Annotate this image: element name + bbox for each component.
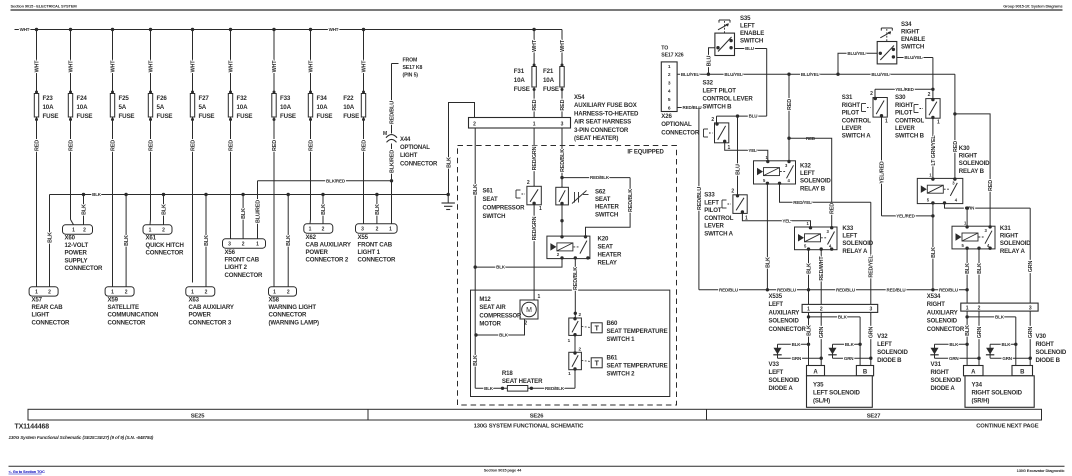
svg-text:10A: 10A: [237, 104, 249, 111]
svg-text:CAB AUXILIARY: CAB AUXILIARY: [189, 304, 234, 311]
svg-text:CONNECTOR: CONNECTOR: [661, 129, 700, 136]
svg-text:S33: S33: [704, 192, 715, 199]
svg-text:GRN: GRN: [1028, 326, 1034, 338]
svg-text:2: 2: [870, 91, 873, 97]
svg-text:YEL: YEL: [748, 148, 757, 153]
svg-text:FUSE: FUSE: [77, 113, 93, 120]
svg-text:BLU/RED: BLU/RED: [255, 200, 261, 223]
svg-text:BLK: BLK: [161, 204, 167, 215]
svg-text:CONTROL: CONTROL: [704, 215, 734, 222]
svg-text:3: 3: [361, 227, 364, 233]
svg-text:DIODE A: DIODE A: [769, 385, 794, 392]
svg-text:BLK: BLK: [806, 263, 812, 274]
svg-text:SWITCH: SWITCH: [740, 38, 763, 45]
svg-text:BLU/YEL: BLU/YEL: [847, 51, 866, 56]
svg-text:RED: RED: [560, 99, 566, 110]
svg-text:1: 1: [35, 290, 38, 296]
svg-text:REAR CAB: REAR CAB: [32, 304, 64, 311]
svg-text:RED/YEL: RED/YEL: [869, 254, 875, 277]
svg-text:S34: S34: [901, 21, 912, 28]
svg-text:S31: S31: [842, 94, 853, 101]
svg-text:SE17 K8: SE17 K8: [403, 65, 423, 71]
svg-text:2: 2: [162, 228, 165, 234]
svg-text:K32: K32: [800, 163, 811, 170]
svg-text:LEFT: LEFT: [842, 233, 857, 240]
svg-text:RIGHT: RIGHT: [895, 102, 914, 109]
svg-text:2: 2: [205, 290, 208, 296]
svg-text:BLK: BLK: [995, 315, 1005, 320]
svg-text:X62: X62: [306, 234, 317, 241]
svg-text:ENABLE: ENABLE: [740, 30, 764, 37]
svg-text:X57: X57: [32, 297, 43, 304]
svg-text:SEAT: SEAT: [483, 197, 498, 203]
svg-text:CONNECTOR: CONNECTOR: [358, 257, 397, 264]
svg-text:HEATER: HEATER: [595, 204, 619, 211]
svg-text:WHT: WHT: [20, 27, 30, 32]
svg-text:SWITCH A: SWITCH A: [842, 133, 871, 140]
svg-text:OPTIONAL: OPTIONAL: [661, 121, 692, 128]
svg-text:(SL/H): (SL/H): [813, 398, 830, 405]
svg-text:CONNECTOR: CONNECTOR: [269, 312, 308, 319]
svg-text:X535: X535: [769, 294, 783, 300]
svg-text:1: 1: [728, 145, 731, 151]
svg-text:RELAY B: RELAY B: [959, 168, 985, 175]
svg-text:RED: RED: [148, 140, 154, 151]
svg-text:RED: RED: [787, 99, 793, 110]
svg-text:FUSE: FUSE: [343, 113, 359, 120]
svg-text:X58: X58: [269, 297, 280, 304]
svg-text:RED/BLU: RED/BLU: [887, 287, 906, 292]
svg-text:12-VOLT: 12-VOLT: [65, 242, 89, 249]
svg-text:SWITCH: SWITCH: [901, 44, 924, 51]
svg-text:BLK: BLK: [499, 333, 509, 338]
svg-text:RIGHT: RIGHT: [1036, 341, 1055, 348]
svg-text:X534: X534: [927, 294, 941, 300]
svg-text:HARNESS-TO-HEATED: HARNESS-TO-HEATED: [574, 110, 639, 117]
svg-text:RED/YEL: RED/YEL: [793, 200, 812, 205]
svg-text:F22: F22: [343, 95, 354, 102]
svg-text:V33: V33: [769, 361, 780, 368]
svg-text:BLK/RED: BLK/RED: [389, 150, 395, 173]
svg-text:RIGHT: RIGHT: [842, 102, 861, 109]
svg-text:1: 1: [72, 228, 75, 234]
svg-text:AUXILIARY: AUXILIARY: [927, 310, 958, 316]
svg-text:YEL/RED: YEL/RED: [879, 161, 885, 184]
svg-text:1: 1: [966, 305, 969, 311]
svg-text:SWITCH B: SWITCH B: [895, 133, 925, 140]
svg-text:2: 2: [322, 227, 325, 233]
svg-text:130G Excavator Diagnostic: 130G Excavator Diagnostic: [1017, 468, 1066, 473]
svg-text:BLK: BLK: [965, 263, 971, 274]
svg-text:GRN: GRN: [1028, 260, 1034, 272]
svg-text:FUSE: FUSE: [543, 86, 559, 93]
svg-text:(SR/H): (SR/H): [972, 398, 990, 405]
svg-text:SE17 X26: SE17 X26: [661, 53, 683, 59]
svg-text:Section 9015 - ELECTRICAL SYST: Section 9015 - ELECTRICAL SYSTEM: [11, 4, 78, 9]
svg-text:10A: 10A: [317, 104, 329, 111]
svg-text:RED: RED: [68, 140, 74, 151]
svg-text:RED/BLK: RED/BLK: [590, 175, 610, 180]
svg-text:BLK: BLK: [204, 235, 210, 246]
svg-text:PILOT: PILOT: [842, 110, 860, 117]
svg-text:RIGHT: RIGHT: [959, 153, 978, 160]
svg-text:10A: 10A: [43, 104, 55, 111]
svg-text:130G SYSTEM FUNCTIONAL SCHEMAT: 130G SYSTEM FUNCTIONAL SCHEMATIC: [474, 424, 585, 430]
svg-text:K33: K33: [842, 225, 853, 232]
svg-text:K30: K30: [959, 145, 970, 152]
svg-text:LEFT: LEFT: [800, 170, 815, 177]
svg-text:RIGHT: RIGHT: [901, 29, 920, 36]
svg-text:1: 1: [937, 120, 940, 126]
svg-text:2: 2: [731, 189, 734, 195]
svg-text:SWITCH A: SWITCH A: [704, 231, 733, 238]
svg-text:CONTINUE NEXT PAGE: CONTINUE NEXT PAGE: [976, 424, 1039, 430]
svg-text:RED/BLK: RED/BLK: [560, 149, 566, 172]
svg-text:RELAY B: RELAY B: [800, 185, 826, 192]
svg-text:F25: F25: [119, 95, 130, 102]
svg-text:LEFT PILOT: LEFT PILOT: [703, 88, 737, 95]
svg-text:LIGHT 2: LIGHT 2: [225, 264, 248, 271]
svg-text:LIGHT: LIGHT: [32, 312, 50, 319]
svg-text:WHT: WHT: [308, 60, 314, 73]
svg-text:1: 1: [539, 206, 542, 212]
svg-text:FUSE: FUSE: [119, 113, 135, 120]
svg-text:X59: X59: [108, 297, 119, 304]
svg-text:POWER: POWER: [65, 250, 88, 257]
svg-text:WHT: WHT: [148, 60, 154, 73]
svg-text:WHT: WHT: [272, 60, 278, 73]
svg-text:BLK: BLK: [496, 265, 506, 270]
svg-text:RED/BLU: RED/BLU: [939, 287, 958, 292]
svg-text:BLK: BLK: [321, 204, 327, 215]
svg-text:S61: S61: [483, 189, 494, 195]
svg-text:LEFT: LEFT: [877, 341, 892, 348]
svg-text:V30: V30: [1036, 333, 1047, 340]
svg-text:S35: S35: [740, 15, 751, 22]
svg-text:BLK: BLK: [838, 315, 848, 320]
svg-text:SEAT AIR: SEAT AIR: [479, 305, 506, 311]
svg-text:BLK: BLK: [473, 355, 479, 366]
svg-text:RIGHT: RIGHT: [1000, 233, 1019, 240]
svg-text:CONTROL: CONTROL: [842, 117, 872, 124]
svg-text:1: 1: [309, 227, 312, 233]
svg-text:FROM: FROM: [403, 58, 418, 64]
svg-text:S62: S62: [595, 189, 606, 196]
svg-text:X60: X60: [65, 235, 76, 242]
svg-text:F31: F31: [514, 68, 525, 75]
svg-text:1: 1: [885, 119, 888, 125]
svg-text:X56: X56: [225, 249, 236, 256]
svg-text:TO: TO: [661, 46, 668, 52]
svg-text:WHT: WHT: [110, 60, 116, 73]
svg-text:BLK: BLK: [845, 342, 855, 347]
svg-text:10A: 10A: [343, 104, 355, 111]
svg-text:B60: B60: [607, 320, 618, 327]
svg-text:GRN: GRN: [819, 326, 825, 338]
svg-text:OPTIONAL: OPTIONAL: [400, 145, 430, 151]
svg-text:RED/GRN: RED/GRN: [532, 216, 538, 240]
svg-text:FRONT CAB: FRONT CAB: [225, 257, 260, 264]
svg-text:CONNECTOR: CONNECTOR: [32, 319, 71, 326]
svg-text:BLK: BLK: [81, 204, 87, 215]
svg-text:DIODE B: DIODE B: [877, 357, 902, 364]
svg-text:RED/BLK: RED/BLK: [545, 386, 565, 391]
svg-text:S30: S30: [895, 94, 906, 101]
svg-text:PILOT: PILOT: [895, 110, 913, 117]
svg-text:SATELLITE: SATELLITE: [108, 304, 139, 311]
svg-text:LEVER: LEVER: [895, 125, 915, 132]
svg-text:LEFT: LEFT: [769, 369, 784, 376]
svg-text:LIGHT: LIGHT: [400, 153, 418, 159]
svg-text:WHT: WHT: [560, 39, 566, 52]
svg-text:X63: X63: [189, 297, 200, 304]
svg-text:SWITCH 2: SWITCH 2: [607, 370, 636, 377]
svg-text:BLK: BLK: [977, 263, 983, 274]
svg-text:3-PIN CONNECTOR: 3-PIN CONNECTOR: [574, 127, 629, 134]
svg-text:BLK: BLK: [484, 386, 494, 391]
svg-text:Section 9015 page 44: Section 9015 page 44: [484, 468, 522, 473]
svg-text:SE26: SE26: [530, 413, 545, 419]
svg-text:BLK: BLK: [92, 192, 102, 197]
svg-text:SOLENOID: SOLENOID: [927, 319, 958, 325]
svg-text:K20: K20: [598, 236, 609, 243]
svg-text:SOLENOID: SOLENOID: [959, 160, 990, 167]
svg-text:BLK: BLK: [446, 157, 452, 168]
svg-text:YEL/RED: YEL/RED: [895, 87, 914, 92]
svg-text:BLU/YEL: BLU/YEL: [801, 72, 820, 77]
svg-text:CONNECTOR: CONNECTOR: [927, 327, 965, 333]
svg-text:1: 1: [191, 290, 194, 296]
svg-text:RIGHT: RIGHT: [931, 369, 950, 376]
svg-text:X54: X54: [574, 94, 585, 101]
svg-text:POWER: POWER: [189, 312, 212, 319]
svg-text:10A: 10A: [514, 77, 526, 84]
svg-text:2: 2: [125, 290, 128, 296]
svg-text:CONNECTOR: CONNECTOR: [400, 161, 438, 167]
svg-text:RED: RED: [272, 140, 278, 151]
svg-text:MOTOR: MOTOR: [479, 322, 501, 328]
svg-text:CONNECTOR: CONNECTOR: [65, 265, 104, 272]
svg-text:2: 2: [820, 307, 823, 313]
svg-text:FUSE: FUSE: [237, 113, 253, 120]
svg-text:F21: F21: [543, 68, 554, 75]
svg-text:WHT: WHT: [68, 60, 74, 73]
svg-text:10A: 10A: [543, 77, 555, 84]
svg-text:R18: R18: [502, 370, 513, 377]
svg-text:LEFT: LEFT: [769, 302, 784, 308]
svg-text:2: 2: [48, 290, 51, 296]
svg-text:LEVER: LEVER: [704, 223, 724, 230]
svg-text:(SEAT HEATER): (SEAT HEATER): [574, 135, 618, 142]
svg-text:1: 1: [256, 242, 259, 248]
svg-text:RIGHT SOLENOID: RIGHT SOLENOID: [972, 390, 1023, 397]
svg-text:2: 2: [978, 305, 981, 311]
svg-text:YEL/RED: YEL/RED: [896, 214, 915, 219]
svg-text:BLU: BLU: [745, 46, 754, 51]
svg-text:RIGHT: RIGHT: [927, 302, 945, 308]
svg-text:FUSE: FUSE: [514, 86, 530, 93]
svg-text:RED: RED: [228, 140, 234, 151]
svg-text:RELAY A: RELAY A: [842, 248, 868, 255]
svg-text:<- Go to Section TOC: <- Go to Section TOC: [9, 469, 46, 474]
svg-text:RED/BLU: RED/BLU: [697, 187, 703, 210]
svg-text:FUSE: FUSE: [317, 113, 333, 120]
svg-text:3: 3: [228, 242, 231, 248]
svg-text:FUSE: FUSE: [199, 113, 215, 120]
svg-text:1: 1: [273, 290, 276, 296]
svg-text:Group 9015-10: System Diagrams: Group 9015-10: System Diagrams: [1003, 4, 1063, 9]
svg-text:SE27: SE27: [867, 413, 881, 419]
svg-text:FRONT CAB: FRONT CAB: [358, 241, 393, 248]
svg-text:BLU/YEL: BLU/YEL: [681, 72, 700, 77]
svg-text:SOLENOID: SOLENOID: [769, 319, 800, 325]
svg-text:BLK: BLK: [473, 184, 479, 195]
svg-text:BLK: BLK: [1002, 342, 1012, 347]
svg-text:RED: RED: [830, 203, 836, 214]
svg-text:F26: F26: [157, 95, 168, 102]
svg-text:S32: S32: [703, 80, 714, 87]
svg-text:3: 3: [561, 121, 564, 127]
svg-text:BLK: BLK: [792, 342, 802, 347]
svg-text:CONTROL LEVER: CONTROL LEVER: [703, 96, 754, 103]
svg-text:BLU/YEL: BLU/YEL: [724, 72, 743, 77]
svg-text:SWITCH: SWITCH: [483, 214, 506, 220]
svg-text:K31: K31: [1000, 225, 1011, 232]
svg-text:RED/BLU: RED/BLU: [836, 287, 855, 292]
svg-text:BLK: BLK: [124, 235, 130, 246]
svg-text:RELAY A: RELAY A: [1000, 248, 1026, 255]
svg-text:CONNECTOR: CONNECTOR: [108, 319, 147, 326]
svg-text:BLU: BLU: [735, 164, 741, 175]
svg-text:M12: M12: [479, 297, 491, 303]
svg-text:SUPPLY: SUPPLY: [65, 257, 88, 264]
svg-text:CONNECTOR: CONNECTOR: [225, 272, 264, 279]
svg-text:QUICK HITCH: QUICK HITCH: [146, 242, 184, 249]
svg-text:LEVER: LEVER: [842, 125, 862, 132]
svg-text:Y35: Y35: [813, 382, 824, 389]
svg-text:2: 2: [527, 180, 530, 186]
svg-text:X26: X26: [661, 113, 672, 120]
svg-text:1: 1: [533, 121, 536, 127]
svg-text:HEATER: HEATER: [598, 252, 622, 259]
svg-text:RED: RED: [190, 140, 196, 151]
svg-text:FUSE: FUSE: [43, 113, 59, 120]
svg-text:WHT: WHT: [329, 27, 339, 32]
svg-text:SOLENOID: SOLENOID: [769, 377, 800, 384]
svg-text:V32: V32: [877, 333, 888, 340]
svg-text:RED: RED: [308, 140, 314, 151]
svg-text:RED/BLK: RED/BLK: [628, 189, 634, 212]
svg-text:RED: RED: [34, 140, 40, 151]
svg-text:5A: 5A: [157, 104, 165, 111]
svg-text:DIODE B: DIODE B: [1036, 357, 1061, 364]
svg-text:DIODE A: DIODE A: [931, 385, 956, 392]
svg-text:1: 1: [149, 228, 152, 234]
svg-text:GRN: GRN: [1002, 356, 1012, 361]
svg-text:(PIN 5): (PIN 5): [403, 73, 419, 79]
svg-text:F24: F24: [77, 95, 88, 102]
svg-text:WHT: WHT: [190, 60, 196, 73]
svg-text:(WARNING LAMP): (WARNING LAMP): [269, 319, 319, 326]
svg-text:WHT: WHT: [361, 60, 367, 73]
svg-text:SOLENOID: SOLENOID: [842, 240, 873, 247]
svg-text:GRN: GRN: [949, 356, 959, 361]
svg-text:5A: 5A: [199, 104, 207, 111]
svg-text:10A: 10A: [280, 104, 292, 111]
svg-text:AIR SEAT HARNESS: AIR SEAT HARNESS: [574, 119, 631, 126]
svg-text:BLK: BLK: [949, 342, 959, 347]
svg-text:BLK: BLK: [241, 208, 247, 219]
svg-text:130G System Functional Schemat: 130G System Functional Schematic (SE25=S…: [9, 435, 154, 440]
svg-text:F27: F27: [199, 95, 210, 102]
svg-text:B61: B61: [607, 354, 618, 361]
svg-text:2: 2: [928, 92, 931, 98]
svg-text:GRN: GRN: [844, 356, 854, 361]
svg-text:POWER: POWER: [306, 249, 329, 256]
svg-text:SOLENOID: SOLENOID: [800, 178, 831, 185]
svg-text:X61: X61: [146, 235, 157, 242]
svg-text:IF EQUIPPED: IF EQUIPPED: [627, 149, 664, 155]
svg-text:RED/BLU: RED/BLU: [389, 101, 395, 124]
svg-text:BLK: BLK: [47, 232, 53, 243]
svg-text:BLU: BLU: [749, 114, 758, 119]
svg-text:1: 1: [538, 294, 541, 300]
svg-text:RELAY: RELAY: [598, 260, 617, 267]
svg-text:F23: F23: [43, 95, 54, 102]
svg-text:X55: X55: [358, 234, 369, 241]
svg-text:1: 1: [807, 307, 810, 313]
svg-text:LEFT: LEFT: [704, 199, 719, 206]
svg-text:BLU/YEL: BLU/YEL: [904, 55, 923, 60]
svg-text:CONNECTOR: CONNECTOR: [769, 327, 807, 333]
svg-text:V31: V31: [931, 361, 942, 368]
svg-text:SEAT TEMPERATURE: SEAT TEMPERATURE: [607, 362, 668, 369]
svg-text:SWITCH 1: SWITCH 1: [607, 336, 636, 343]
svg-text:GRN: GRN: [869, 326, 875, 338]
svg-text:M: M: [383, 131, 387, 137]
svg-text:BLU/YEL: BLU/YEL: [871, 72, 890, 77]
svg-text:RED: RED: [532, 99, 538, 110]
svg-text:BLK: BLK: [375, 204, 381, 215]
svg-text:LEFT SOLENOID: LEFT SOLENOID: [813, 390, 861, 397]
svg-text:BLK: BLK: [765, 257, 771, 268]
svg-text:10A: 10A: [77, 104, 89, 111]
svg-text:2: 2: [473, 121, 476, 127]
svg-text:BLU: BLU: [706, 55, 712, 66]
svg-text:COMMUNICATION: COMMUNICATION: [108, 312, 159, 319]
svg-text:ENABLE: ENABLE: [901, 36, 925, 43]
svg-text:BLK: BLK: [965, 325, 971, 336]
svg-text:X44: X44: [400, 137, 411, 143]
svg-text:SE25: SE25: [191, 413, 206, 419]
svg-text:F34: F34: [317, 95, 328, 102]
svg-text:3: 3: [869, 307, 872, 313]
svg-text:RED: RED: [110, 140, 116, 151]
svg-text:F33: F33: [280, 95, 291, 102]
svg-text:COMPRESSOR: COMPRESSOR: [479, 313, 522, 319]
svg-text:PILOT: PILOT: [704, 207, 722, 214]
svg-text:SWITCH: SWITCH: [595, 211, 618, 218]
svg-text:2: 2: [242, 242, 245, 248]
svg-text:BLK: BLK: [286, 235, 292, 246]
svg-text:2: 2: [83, 228, 86, 234]
svg-text:1: 1: [745, 216, 748, 222]
svg-text:CONNECTOR: CONNECTOR: [146, 250, 185, 257]
svg-text:FUSE: FUSE: [157, 113, 173, 120]
svg-text:GRN: GRN: [977, 326, 983, 338]
svg-text:SOLENOID: SOLENOID: [877, 349, 908, 356]
svg-text:AUXILIARY: AUXILIARY: [769, 310, 800, 316]
